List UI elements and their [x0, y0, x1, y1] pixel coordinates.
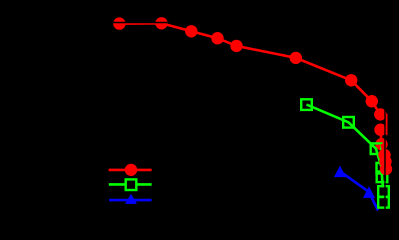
red circle marker 7	[345, 74, 357, 86]
red circle marker 8	[366, 95, 378, 107]
red circle marker 11	[375, 138, 387, 150]
green square marker 1	[301, 99, 312, 110]
green square marker 2	[343, 117, 354, 128]
red series line	[119, 23, 386, 144]
green square marker 7	[378, 197, 389, 208]
green series line	[307, 105, 384, 203]
green square marker 6	[378, 186, 389, 197]
plot border top (black, visible only over data)	[55, 22, 385, 24]
red circle marker 2	[155, 17, 167, 29]
legend red circle	[125, 164, 137, 176]
red circle marker 1	[113, 17, 125, 29]
legend green square	[126, 179, 137, 190]
blue triangle marker 1	[334, 166, 346, 178]
red series tail line	[382, 144, 387, 169]
blue triangle marker 2	[363, 186, 375, 198]
legend blue sample line	[109, 199, 152, 202]
green square marker 4	[377, 163, 388, 174]
red circle marker 6	[290, 52, 302, 64]
plot border right (black, visible only over data)	[384, 23, 386, 212]
green square marker 3	[371, 143, 382, 154]
legend green sample line	[109, 183, 152, 186]
green square marker 5	[377, 172, 388, 183]
red circle marker 10	[374, 124, 386, 136]
legend blue triangle	[125, 194, 137, 204]
red circle marker 5	[230, 40, 242, 52]
red circle marker 3	[185, 25, 197, 37]
red circle marker 4	[211, 32, 223, 44]
legend red sample line	[109, 169, 152, 172]
blue series line	[340, 171, 378, 210]
red circle marker 13	[379, 155, 391, 167]
red circle marker 9	[374, 108, 386, 120]
red circle marker 12	[378, 149, 390, 161]
red circle marker 14	[380, 163, 392, 175]
